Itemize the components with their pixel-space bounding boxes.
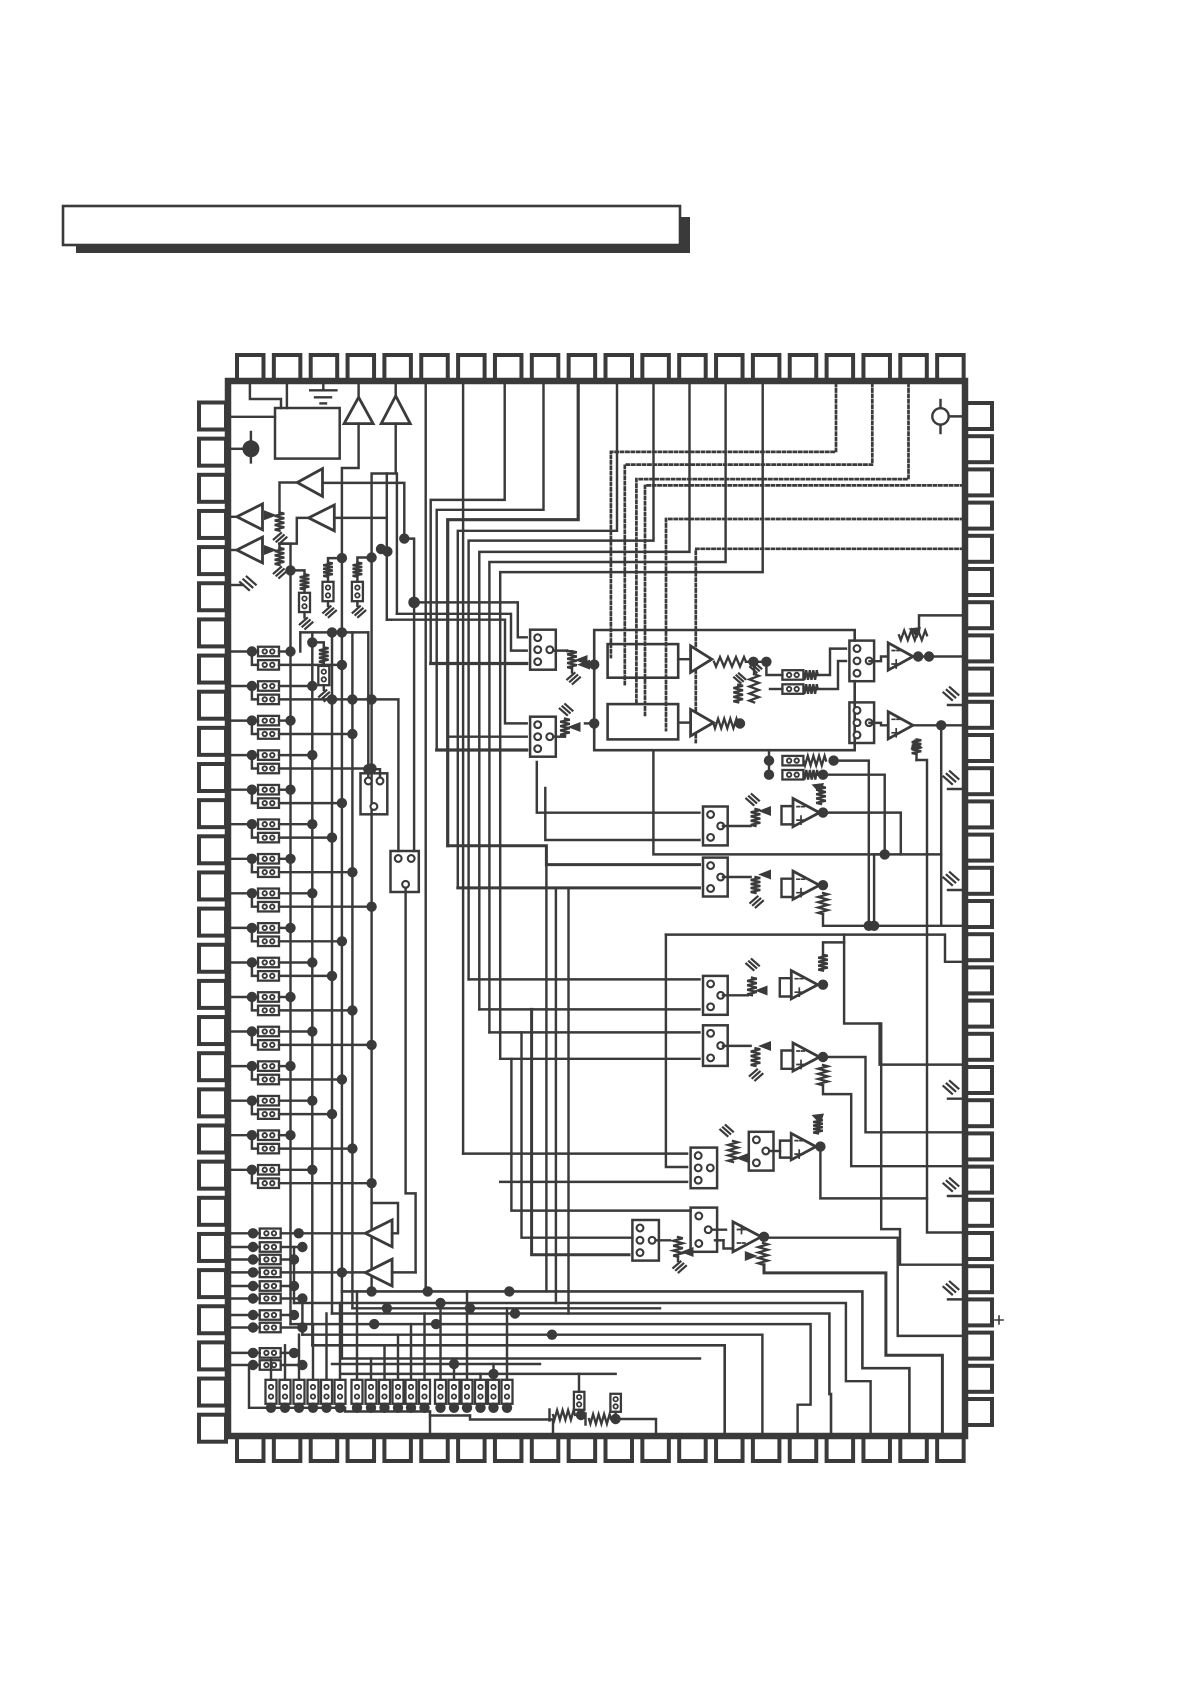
wire T1 out — [342, 424, 359, 558]
buffer F left — [365, 1259, 392, 1286]
box CBG2 — [691, 1208, 718, 1252]
output resistor 6 — [335, 1303, 346, 1413]
title bar — [63, 206, 680, 245]
wire CBD wiper — [723, 994, 748, 996]
divider vres1 — [733, 685, 743, 703]
buffer E left — [365, 1220, 392, 1247]
bottom bus 1308 — [352, 1307, 660, 1309]
divider vres2 — [753, 662, 755, 674]
ground edge R28 — [948, 1298, 963, 1300]
wire U3 chain — [823, 914, 963, 926]
input cell row 7 — [231, 854, 358, 878]
buffer T2 up — [394, 384, 396, 396]
pot U3b — [816, 787, 826, 805]
node RU4 — [307, 637, 317, 647]
wire pin T14 bus — [489, 384, 725, 1032]
opamp U2 — [888, 712, 913, 739]
pot P2 — [264, 545, 277, 555]
input cell row 12 — [231, 1026, 377, 1050]
wire bus x290 head — [280, 544, 291, 571]
wire CBD bot feed — [479, 1008, 699, 1010]
wire buffer E in — [372, 1203, 398, 1233]
resistor unit RU4 — [312, 642, 324, 647]
output resistor 1 — [266, 1359, 277, 1414]
wire R21 — [880, 1024, 963, 1065]
wire r4 chain — [823, 775, 885, 855]
buffer C left — [309, 505, 335, 531]
node J404 — [399, 533, 409, 543]
input cell row 4 — [231, 750, 377, 774]
wire CBC0 top feed — [537, 762, 700, 813]
wire CBF2 to U6 — [769, 1150, 780, 1152]
ground edge R9 — [948, 704, 963, 706]
analog switch CBF — [691, 1148, 718, 1189]
ground edge R14 — [948, 889, 963, 891]
dotted wire T18 — [625, 384, 873, 686]
wire CB1 bot feed — [431, 662, 527, 665]
wire 934 drop — [844, 935, 963, 1265]
res A2 — [714, 657, 746, 667]
wire x874 vert — [873, 854, 875, 925]
bottom bus 1303 — [294, 1303, 871, 1437]
pot U6 — [813, 1119, 823, 1133]
wire CBG bot feed — [532, 1009, 629, 1254]
node RU3 — [366, 552, 376, 562]
resistor unit RU1 — [291, 570, 305, 574]
output resistor 12 — [419, 1314, 430, 1414]
wire CBC0 bot feed — [545, 788, 699, 840]
box CBF2 — [749, 1132, 774, 1171]
pot U3 — [818, 893, 828, 914]
output resistor 4 — [308, 1324, 319, 1413]
dotted wire R5 — [696, 549, 963, 742]
left pin row — [199, 403, 226, 430]
wire pin T1 to box — [250, 384, 281, 408]
wire U3b out — [818, 807, 828, 817]
pot loop B — [585, 722, 594, 724]
input cell row 8 — [231, 888, 377, 912]
wire pin T12 bus — [469, 384, 654, 979]
output resistor 3 — [294, 1335, 305, 1413]
analog switch CBB — [849, 702, 874, 743]
wire CBC top feed — [448, 846, 700, 865]
res pack A — [548, 1410, 550, 1421]
pot C — [723, 876, 751, 878]
pot D — [747, 978, 757, 996]
bottom bus 1334 — [302, 1335, 762, 1437]
bus x352 — [351, 632, 353, 1308]
input cell srow 9 — [231, 1348, 299, 1358]
wire bus 854 — [653, 750, 941, 854]
buffer A left — [297, 469, 322, 497]
wire L1 to box — [231, 416, 275, 418]
input cell row 3 — [231, 715, 358, 739]
input cell srow 5 — [231, 1281, 299, 1291]
coupling res r1 — [782, 670, 803, 680]
ground edge R12 — [948, 788, 963, 790]
bus x405 — [406, 888, 416, 1273]
bottom bus 1291 — [342, 1291, 910, 1437]
wire r1 to CBA — [818, 649, 846, 675]
dotted wire T19 — [636, 384, 908, 702]
node RU1 — [285, 565, 295, 575]
input cell row 13 — [231, 1061, 347, 1085]
wire R7 — [919, 615, 963, 630]
riser x294 — [293, 1247, 295, 1303]
output resistor 8 — [366, 1359, 377, 1414]
input cell srow 2 — [231, 1242, 308, 1252]
node loop B — [589, 718, 599, 728]
IC body outline — [228, 381, 965, 1436]
wire U2 out drop — [940, 725, 942, 926]
wire cross 632 — [300, 631, 368, 633]
analog switch CBA — [849, 641, 874, 682]
wire r3 chain — [834, 761, 869, 926]
chassis ground left edge — [231, 584, 243, 586]
earth ground — [322, 384, 324, 390]
bottom bus 1345 — [312, 1345, 724, 1437]
output resistor 13 — [435, 1303, 446, 1413]
wire x391 drop — [386, 518, 388, 620]
input cell row 14 — [231, 1096, 337, 1120]
output resistor 11 — [406, 1324, 417, 1413]
wire R26 — [820, 1147, 963, 1233]
buffer T1 up — [357, 384, 359, 397]
wire pin T10 bus — [448, 384, 579, 846]
block B1 — [275, 408, 340, 459]
pot U4 — [818, 955, 828, 971]
pot CB1 — [553, 649, 567, 651]
block B2 — [608, 644, 679, 678]
input cell srow 3 — [231, 1254, 299, 1264]
wire pin T11 bus — [458, 384, 617, 888]
opamp U5 — [793, 1043, 819, 1071]
opamp U3b — [793, 799, 819, 827]
wire loop to r34 — [768, 750, 770, 775]
bus x312 — [311, 632, 313, 1345]
input cell row 11 — [231, 992, 358, 1016]
input cell srow 7 — [231, 1310, 299, 1320]
bus x290 — [289, 570, 291, 1324]
input cell srow 1 — [231, 1228, 365, 1238]
buffer D left — [231, 549, 237, 551]
wire CB2 top feed — [391, 620, 527, 724]
coupling res r2 — [782, 684, 803, 694]
wire U2 out — [913, 724, 963, 726]
bus x332 — [331, 632, 333, 1313]
feedback loop — [594, 630, 855, 750]
wire CBG2 top feed — [511, 1059, 690, 1211]
node loop A — [589, 659, 599, 669]
pot E — [723, 1045, 751, 1047]
wire CBG2 top — [712, 1228, 726, 1230]
output resistor 14 — [449, 1364, 460, 1413]
dotted wire R3 — [645, 485, 963, 716]
wire mid drop 568 — [567, 888, 569, 1314]
wire buffer F in — [392, 1271, 416, 1273]
amp A2 — [691, 646, 712, 673]
output resistor 5 — [321, 1314, 332, 1414]
analog switch CBG — [632, 1220, 659, 1261]
input cell row 15 — [231, 1130, 358, 1154]
coupling res r3 — [764, 755, 774, 765]
pot G — [673, 1237, 683, 1257]
oscillator phi — [939, 400, 941, 433]
wire buffer C out — [280, 518, 309, 548]
buffer B left — [231, 516, 237, 518]
output resistor 17 — [488, 1364, 499, 1413]
analog switch CBE — [703, 1025, 728, 1066]
wire buffer C input — [334, 474, 387, 518]
bus x371 — [370, 558, 372, 1292]
dotted wire R4 — [666, 519, 963, 730]
opamp U4 — [791, 971, 817, 999]
wire U4 up — [823, 942, 844, 954]
analog switch CBC0 — [703, 807, 728, 846]
resistor unit RU2 — [328, 558, 342, 562]
dotted wire T17 — [611, 384, 836, 657]
opamp U6 — [791, 1133, 816, 1159]
wire CBH2 right circle — [368, 769, 380, 777]
analog switch CB1 — [530, 630, 556, 670]
opamp U1 — [888, 643, 913, 670]
pot CB2 — [553, 735, 565, 737]
wire CBG mid feed — [522, 1032, 633, 1237]
output resistor 2 — [280, 1345, 291, 1413]
wire CB1 mid feed — [397, 614, 527, 651]
wire CBE top feed — [489, 1031, 699, 1033]
bottom bus 1358 — [342, 1357, 700, 1359]
output resistor 18 — [502, 1308, 513, 1413]
pot F — [728, 1141, 738, 1162]
pack chain 1 — [249, 1365, 345, 1408]
wire R23 — [823, 1057, 963, 1132]
res pack B — [584, 1414, 586, 1425]
wire pin T2 to box — [286, 384, 288, 408]
bottom pin row — [237, 1436, 264, 1461]
input cell srow 10 — [231, 1360, 308, 1370]
wire pin T8 bus — [431, 384, 505, 664]
pot U5 — [818, 1065, 828, 1085]
wire J404 jog — [404, 539, 414, 603]
wire U6 out — [815, 1141, 825, 1151]
input cell row 16 — [231, 1165, 377, 1189]
wire T2 out — [372, 424, 396, 558]
wire T2 branch — [396, 474, 398, 614]
wire CBC bot feed — [458, 886, 700, 889]
wire U2 pot chain — [915, 754, 917, 760]
analog switch CBH — [391, 851, 419, 892]
wire CBF bot feed — [500, 1181, 687, 1183]
bus x342 — [341, 558, 343, 1358]
output resistor 16 — [475, 1374, 486, 1413]
block B3 — [608, 704, 679, 739]
wire pin T6 bus — [424, 384, 426, 1291]
bottom bus 1374 — [342, 1373, 616, 1375]
output resistor 15 — [462, 1291, 473, 1413]
wire CBE bot feed — [500, 1058, 699, 1060]
bus x414 — [413, 602, 415, 851]
input cell row 2 — [231, 681, 337, 705]
pot D gnd — [746, 964, 753, 970]
analog switch CBC — [703, 858, 728, 897]
bottom bus 1364 — [332, 1363, 540, 1365]
pot U7 — [758, 1243, 768, 1265]
junction node J1 — [242, 440, 259, 457]
input cell row 5 — [231, 785, 347, 809]
wire U3 out — [818, 880, 828, 890]
output resistor 10 — [393, 1335, 404, 1413]
wire mid drop 555 — [555, 888, 557, 1303]
wire pack A up — [578, 1374, 580, 1392]
wire CB2 bot feed — [437, 748, 527, 751]
bottom bus 1324 — [291, 1324, 811, 1437]
wire row2 to CBH — [332, 699, 398, 851]
wire pin T7 bus — [462, 384, 464, 1154]
wire U4 out — [818, 980, 828, 990]
title bar shadow — [76, 217, 690, 253]
riser x302 — [301, 1299, 303, 1335]
wire U7 out — [759, 1232, 769, 1242]
amp A3 — [691, 709, 714, 736]
wire pin T13 bus — [479, 384, 689, 1009]
wire buffer A out — [280, 483, 298, 513]
plus mark — [995, 1316, 1003, 1324]
resistor unit RU3 — [357, 558, 371, 563]
wire U5 out — [818, 1052, 828, 1062]
analog switch CBH2 — [361, 773, 388, 814]
analog switch CB2 — [530, 717, 556, 757]
pot F gnd — [720, 1130, 727, 1136]
top pin row — [237, 355, 264, 381]
wire pin T9 bus — [437, 384, 544, 750]
wire CB1 top feed — [414, 602, 527, 637]
ground edge R22 — [948, 1097, 963, 1099]
pot C0 — [723, 825, 751, 827]
wire mid drop 546 — [545, 865, 547, 1292]
coupling res r4 — [764, 770, 774, 780]
pot loop A — [585, 663, 594, 665]
input cell row 1 — [231, 646, 347, 670]
wire U1 out — [913, 655, 963, 657]
node cross632 — [327, 627, 337, 637]
bottom bus 1313 — [332, 1314, 831, 1438]
wire U7 R29 — [764, 1238, 963, 1336]
wire CBB to U2 — [870, 723, 889, 725]
output resistor 9 — [379, 1345, 390, 1413]
input cell row 10 — [231, 957, 337, 981]
wire pin T15 bus — [500, 384, 763, 1059]
wire U7 chain — [764, 1265, 942, 1437]
wire U5 chain — [823, 1085, 963, 1166]
wire CBH bottom — [404, 886, 406, 888]
input cell srow 4 — [231, 1267, 365, 1277]
res A3 — [714, 719, 739, 729]
pot U1 — [899, 631, 927, 641]
wire CBF top feed — [463, 1152, 687, 1154]
wire chain 934 — [666, 935, 963, 962]
wire pack B down — [616, 1419, 656, 1437]
wire buffer A input — [323, 483, 405, 539]
pot U2 — [912, 739, 922, 754]
input cell srow 8 — [231, 1322, 308, 1332]
right pin row — [966, 403, 992, 429]
opamp U3 — [793, 871, 819, 899]
pot P1 — [264, 510, 277, 520]
wire CBF mid feed — [666, 935, 687, 1167]
output resistor 7 — [352, 1291, 363, 1413]
wire CBA to U1 — [870, 657, 889, 662]
wire CBG wiper — [656, 1239, 671, 1241]
node RU2 — [337, 553, 347, 563]
analog switch CBD — [703, 976, 728, 1015]
input cell row 9 — [231, 923, 347, 947]
wire CB2 mid feed — [448, 735, 527, 737]
ground edge R25 — [948, 1195, 963, 1197]
wire CBD top feed — [469, 978, 700, 980]
wire r2 to CBA — [818, 661, 846, 689]
opamp U7 — [733, 1222, 761, 1252]
input cell row 6 — [231, 819, 337, 843]
input cell srow 6 — [231, 1293, 308, 1303]
